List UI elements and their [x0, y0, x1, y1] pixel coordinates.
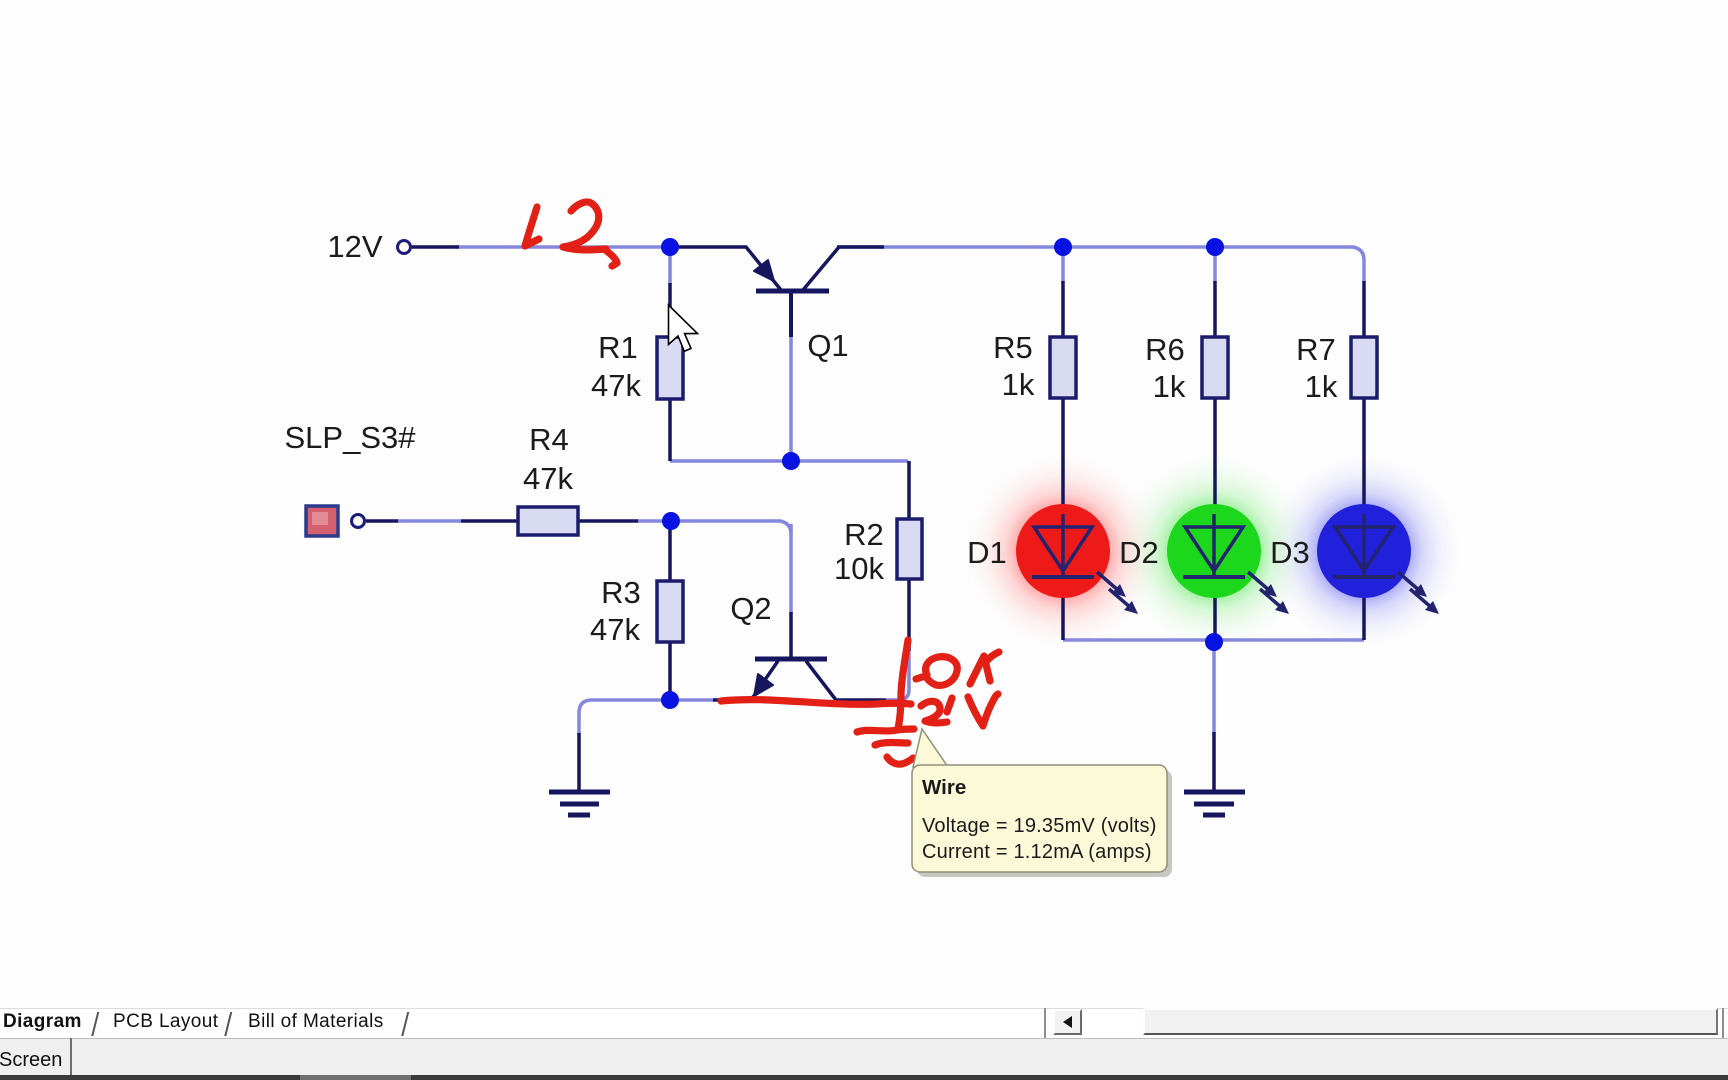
svg-text:Current = 1.12mA (amps): Current = 1.12mA (amps): [922, 841, 1152, 863]
svg-text:12V: 12V: [327, 229, 382, 264]
svg-text:R1: R1: [598, 330, 638, 365]
svg-text:Wire: Wire: [922, 776, 966, 799]
svg-text:D2: D2: [1119, 535, 1159, 570]
svg-text:R6: R6: [1145, 332, 1185, 367]
svg-text:R4: R4: [529, 422, 569, 457]
svg-text:R5: R5: [993, 330, 1033, 365]
svg-text:D3: D3: [1270, 535, 1310, 570]
svg-text:Voltage = 19.35mV (volts): Voltage = 19.35mV (volts): [922, 815, 1157, 837]
svg-text:D1: D1: [967, 535, 1007, 570]
svg-text:1k: 1k: [1305, 369, 1338, 404]
svg-text:47k: 47k: [523, 461, 573, 496]
svg-text:1k: 1k: [1153, 369, 1186, 404]
svg-text:Q1: Q1: [807, 328, 848, 363]
svg-text:10k: 10k: [834, 551, 884, 586]
svg-text:47k: 47k: [591, 368, 641, 403]
svg-text:1k: 1k: [1002, 367, 1035, 402]
svg-text:R7: R7: [1296, 332, 1336, 367]
svg-text:47k: 47k: [590, 612, 640, 647]
svg-text:SLP_S3#: SLP_S3#: [285, 420, 417, 455]
svg-text:R2: R2: [844, 517, 884, 552]
svg-text:R3: R3: [601, 575, 641, 610]
svg-text:Q2: Q2: [730, 591, 771, 626]
